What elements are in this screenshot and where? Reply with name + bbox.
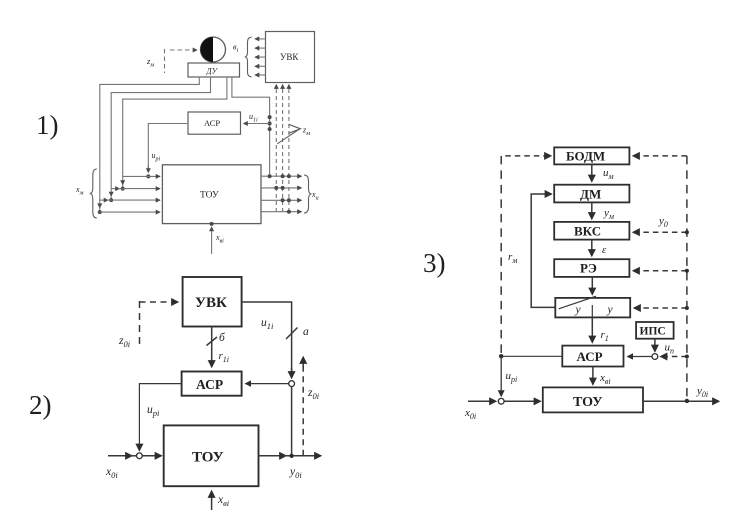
node on output line [289, 454, 293, 458]
block DM [554, 185, 629, 203]
node dashed cross u_p [685, 355, 689, 359]
label b [219, 332, 226, 344]
UVK left arrow 1 [255, 38, 266, 40]
svg-text:АСР: АСР [577, 349, 603, 364]
svg-text:УВК: УВК [195, 295, 227, 311]
node out3 b [287, 198, 291, 202]
block VKS [554, 222, 629, 240]
svg-text:АСР: АСР [204, 118, 220, 128]
svg-text:y0i: y0i [289, 466, 302, 480]
dashed z_0i right with up arrow [302, 357, 304, 456]
wire node down to output line [291, 387, 293, 456]
node dashed cross VKS [685, 230, 689, 234]
node out1 b [281, 174, 285, 178]
label x_vi d2 [217, 494, 230, 508]
wire dashed into BODM left [505, 155, 551, 157]
brace left of TOU [90, 169, 97, 218]
wire UVK to ASR vertical [211, 327, 213, 368]
block RE [554, 259, 629, 277]
tick a on wire [286, 328, 298, 340]
label u_pi [152, 151, 161, 163]
node out3 a [281, 198, 285, 202]
wire dashed right vert to node [661, 356, 687, 358]
svg-text:РЭ: РЭ [580, 261, 597, 276]
wire node to ASR d2 [246, 383, 289, 385]
node left vert junction [499, 354, 503, 358]
svg-text:б: б [219, 332, 226, 344]
wire DU out3 to left bus v3 [123, 77, 227, 177]
block ASR d2 [182, 372, 242, 396]
wire RE to switch [591, 277, 593, 295]
label x_vi d3 [599, 372, 611, 386]
svg-text:3): 3) [423, 248, 446, 278]
wire r_m feedback [531, 194, 555, 307]
wire ASR left down u_pi [139, 384, 181, 451]
label u_m [603, 167, 614, 181]
wire UVK right to node a [242, 302, 292, 378]
wire TOU output line 3 [261, 199, 302, 201]
sensor disc (half black circle) [200, 37, 225, 62]
svg-text:ТОУ: ТОУ [192, 450, 224, 466]
node out2 a [274, 186, 278, 190]
wire TOU input line 4 [100, 211, 160, 213]
node on right vertical 3 [268, 127, 272, 131]
wire dashed stub z_0i d2 [139, 301, 141, 348]
wire ASR left thin line [501, 355, 562, 357]
wire DU out1 to left bus v1 [100, 77, 200, 200]
svg-text:1): 1) [36, 110, 59, 140]
label x_m left [75, 185, 84, 197]
svg-text:r1i: r1i [219, 350, 230, 364]
wire dashed into VKS right [633, 231, 687, 233]
UVK left arrow 2 [255, 47, 266, 49]
wire v3 drop to line2 [122, 176, 124, 188]
label y_0i d3 [696, 385, 708, 399]
block DU [188, 63, 240, 77]
svg-text:zм: zм [302, 126, 310, 138]
wire dashed into RE right [633, 270, 687, 272]
svg-text:upi: upi [506, 370, 518, 384]
block UVK d2 [183, 277, 242, 327]
label y_m [603, 207, 614, 221]
wire TOU output line 2 [261, 187, 302, 189]
svg-text:xм: xм [75, 185, 84, 197]
dashed line UVK bottom 2 [282, 85, 284, 213]
node v1 line4 [98, 210, 102, 214]
wire dashed arrow into disc [170, 49, 197, 51]
node dashed cross RE [685, 269, 689, 273]
label v_i [233, 43, 238, 55]
svg-text:ТОУ: ТОУ [200, 191, 219, 201]
svg-text:2): 2) [29, 390, 52, 420]
node out1 a [268, 174, 272, 178]
wire x_vi bottom d2 [211, 491, 213, 510]
brace left of UVK [245, 37, 252, 77]
label a [303, 326, 309, 338]
svg-text:upi: upi [147, 404, 160, 418]
right dashed vertical d3 [686, 156, 688, 401]
wire v2 drop to line3 [110, 189, 112, 201]
wire TOU input line 1 [123, 175, 160, 177]
svg-text:xвi: xвi [599, 372, 611, 386]
svg-text:ИПС: ИПС [640, 326, 666, 338]
wire TOU input line 3 [100, 199, 160, 201]
svg-text:xвi: xвi [215, 233, 224, 245]
block BODM [554, 147, 629, 164]
wire ASR out u_pi down [148, 124, 188, 173]
node dashed cross switch [685, 306, 689, 310]
label r_1i [219, 350, 230, 364]
block TOU d1 [162, 165, 261, 224]
svg-text:rм: rм [508, 251, 517, 265]
svg-text:u1i: u1i [261, 317, 274, 331]
svg-text:у: у [575, 304, 582, 316]
svg-text:xвi: xвi [217, 494, 230, 508]
svg-text:y0: y0 [658, 215, 668, 229]
wire dashed into switch right [634, 307, 687, 309]
node on right vertical 2 [268, 122, 272, 126]
dashed line UVK bottom 1 [275, 85, 277, 213]
wire DU out2 to left bus v2 [111, 77, 210, 189]
wire y_0i output d3 [643, 400, 719, 402]
label u_p [665, 342, 675, 356]
node v2 line3 [109, 198, 113, 202]
wire node to ASR right [628, 356, 653, 358]
wire v1 drop to line4 [99, 200, 101, 212]
svg-text:z0i: z0i [118, 335, 131, 349]
svg-text:ε: ε [602, 245, 607, 256]
svg-text:zм: zм [146, 56, 154, 69]
wire TOU output line 4 [261, 211, 302, 213]
node circle a junction [289, 381, 295, 387]
block UVK [266, 32, 315, 83]
svg-text:АСР: АСР [196, 377, 223, 392]
UVK left arrow 3 [255, 56, 266, 58]
wire y_0i output [259, 455, 322, 457]
wire switch to ASR [591, 317, 593, 342]
wire x_0i input [108, 455, 162, 457]
svg-text:z0i: z0i [307, 387, 320, 401]
svg-text:ДУ: ДУ [206, 66, 219, 75]
left dashed vertical d3 [500, 156, 502, 356]
label u_pi d2 [147, 404, 160, 418]
node circle x_0i d3 [498, 398, 504, 404]
svg-text:uм: uм [603, 167, 614, 181]
wire x_vi bottom arrow d1 [210, 222, 214, 254]
wire u_1i into ASR [244, 123, 270, 125]
svg-text:y0i: y0i [696, 385, 708, 399]
svg-text:у: у [607, 304, 614, 316]
node output cross d3 [685, 399, 689, 403]
label x_vi d1 [215, 233, 224, 245]
wire DU out4 to right vertical [232, 77, 270, 176]
svg-text:ДМ: ДМ [580, 187, 601, 202]
wire left vertical down to node (solid) [500, 356, 502, 396]
label z_0i d2 left [118, 335, 131, 349]
svg-text:x0i: x0i [105, 466, 118, 480]
wire x_0i input d3 [468, 400, 541, 402]
wire dashed arrow into UVK d2 [140, 301, 179, 303]
block TOU d3 [543, 387, 643, 412]
wire TOU output line 1 [261, 175, 302, 177]
block TOU d2 [164, 425, 259, 486]
label z_m right [302, 126, 310, 138]
svg-text:yм: yм [603, 207, 614, 221]
label epsilon [602, 245, 607, 256]
wire ASR to TOU d3 [592, 367, 594, 385]
wire VKS to RE [591, 240, 593, 256]
label z_m [146, 56, 154, 69]
svg-text:вi: вi [233, 43, 238, 55]
wire dashed stub z_m [164, 49, 166, 73]
svg-text:ТОУ: ТОУ [573, 395, 603, 410]
block IPS [636, 322, 674, 339]
brace right of TOU [304, 175, 312, 213]
svg-text:x0i: x0i [464, 407, 476, 421]
svg-text:uп: uп [665, 342, 675, 356]
svg-text:УВК: УВК [280, 52, 299, 62]
svg-text:upi: upi [152, 151, 161, 163]
label 1) [36, 110, 59, 140]
wire DM to VKS [591, 202, 593, 219]
svg-text:БОДМ: БОДМ [566, 149, 605, 164]
svg-text:r1: r1 [601, 329, 609, 343]
UVK left arrow 4 [255, 65, 266, 67]
svg-text:xи: xи [311, 190, 319, 202]
label x_0i d3 [464, 407, 476, 421]
svg-text:a: a [303, 326, 309, 338]
label u_1i [249, 112, 258, 124]
node u_pi junction [146, 174, 150, 178]
node circle x0i junction [137, 453, 143, 459]
tick b on wire [207, 337, 218, 346]
wire IPS down to node [654, 339, 656, 352]
node out4 a [287, 210, 291, 214]
wire dashed into BODM right [633, 155, 687, 157]
block ASR d3 [562, 346, 623, 367]
block ASR d1 [188, 112, 241, 134]
label 3) [423, 248, 446, 278]
label 2) [29, 390, 52, 420]
node out2 b [281, 186, 285, 190]
node on right vertical 1 [268, 115, 272, 119]
label y_0 [658, 215, 668, 229]
label x_i right [311, 190, 319, 202]
block switch [555, 296, 630, 317]
UVK left arrow 5 [255, 74, 266, 76]
svg-text:ВКС: ВКС [574, 224, 601, 239]
node circle u_p [652, 354, 658, 360]
label z_0i d2 right [307, 387, 320, 401]
wire TOU input line 2 [111, 188, 160, 190]
disturbance open arrow z_m [277, 124, 300, 144]
label u_pi d3 [506, 370, 518, 384]
svg-text:u1i: u1i [249, 112, 258, 124]
label u_1i d2 [261, 317, 274, 331]
dashed line UVK bottom 3 [288, 85, 290, 213]
node out1 c [287, 174, 291, 178]
label y_0i d2 [289, 466, 302, 480]
label x_0i d2 [105, 466, 118, 480]
label r_1 [601, 329, 609, 343]
node v3 line2 [121, 187, 125, 191]
wire BODM to DM [591, 164, 593, 181]
label r_m [508, 251, 517, 265]
